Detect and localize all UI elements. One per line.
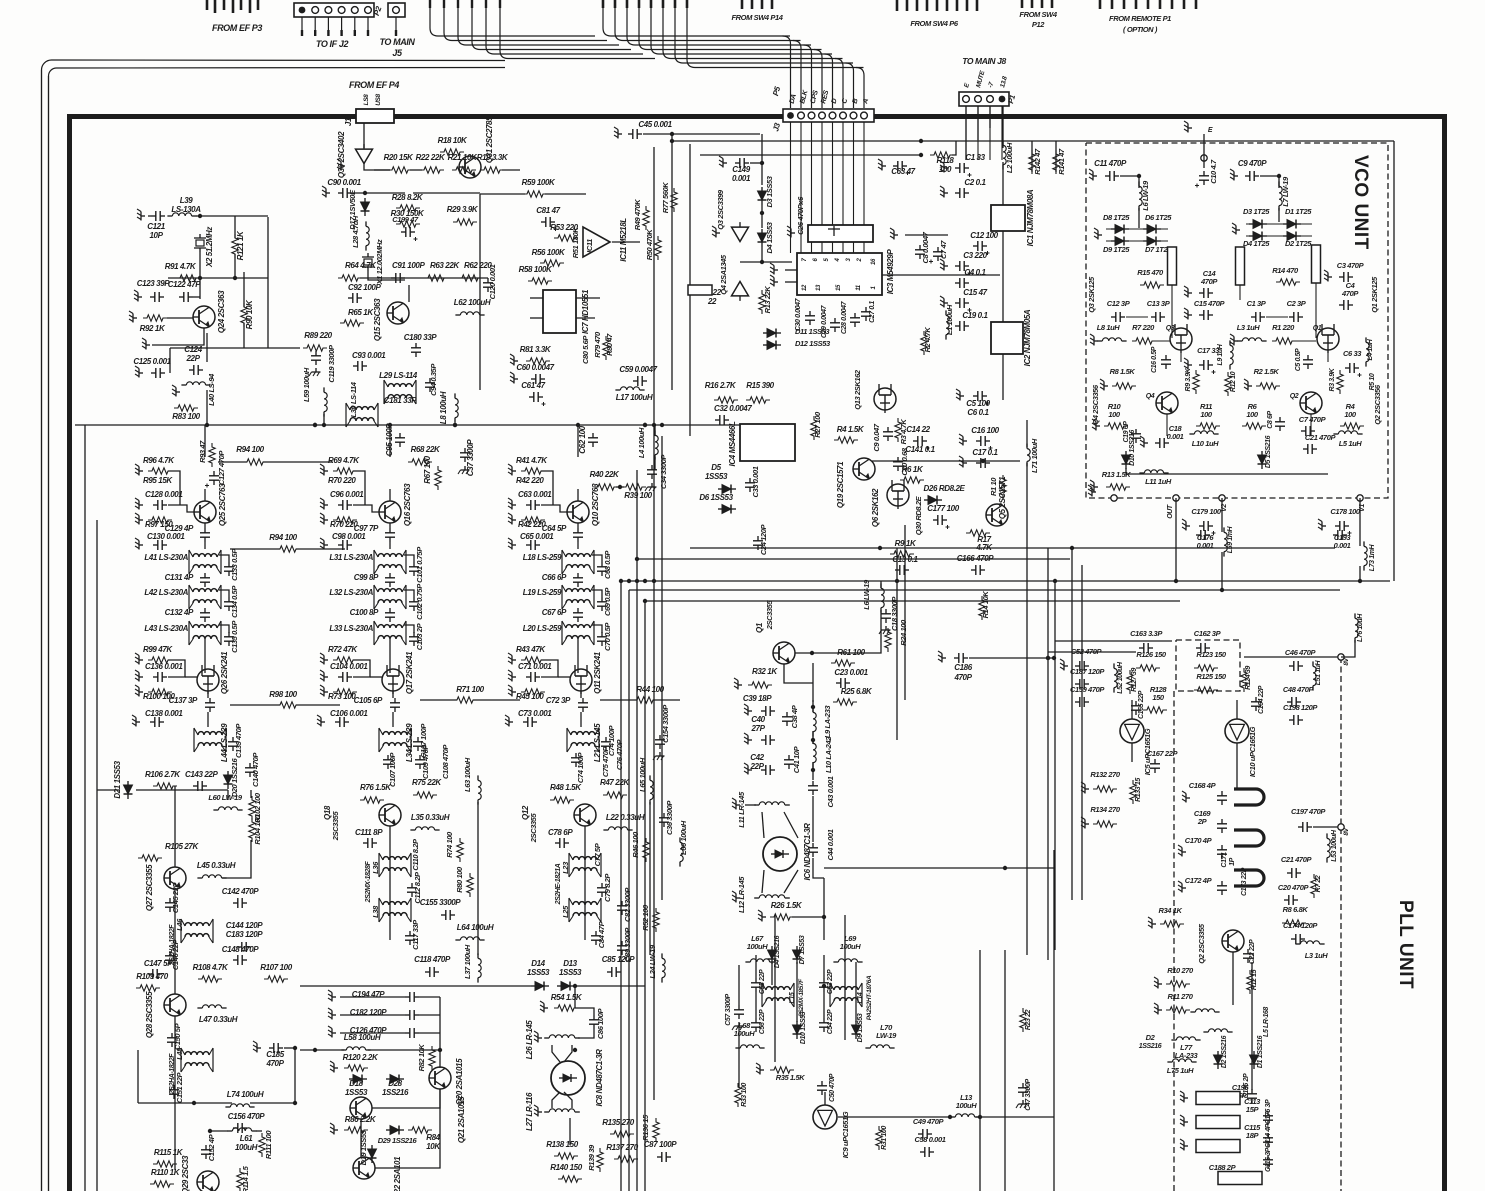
svg-text:C134 0.5P: C134 0.5P (230, 585, 239, 618)
inductor L20 (562, 621, 594, 645)
svg-text:R42 220: R42 220 (516, 476, 544, 485)
capacitor C38 (782, 712, 792, 726)
wire (612, 241, 640, 243)
svg-text:R70 220: R70 220 (328, 476, 356, 485)
diode D10v (1122, 451, 1131, 469)
label pin DA (789, 93, 798, 104)
connector FROM REMOTE P1 stubs (1100, 0, 1196, 9)
capacitor C133 (224, 562, 234, 576)
wire (1120, 175, 1139, 177)
label FROM REMOTE P1 (1109, 14, 1171, 34)
svg-text:R133 15: R133 15 (1135, 778, 1142, 802)
inductor L26 (544, 1035, 580, 1038)
label R31 (881, 1126, 888, 1150)
capacitor C164 (1251, 697, 1261, 711)
label R45 100 (516, 692, 544, 701)
capacitor C166 (971, 565, 985, 575)
FET Q11 (570, 665, 592, 694)
label C40 value (750, 724, 765, 733)
capacitor C145 (165, 898, 175, 912)
label C176 (1197, 533, 1215, 542)
label C78 (548, 828, 573, 837)
svg-text:18P: 18P (1246, 1131, 1260, 1140)
label R15v (1137, 268, 1164, 277)
wire bus c5 (896, 548, 898, 740)
label L18 LS-259 (523, 553, 562, 562)
connector TO MAIN J5 (388, 3, 405, 36)
svg-text:C110 8.2P: C110 8.2P (411, 838, 420, 871)
svg-text:2SC3355: 2SC3355 (765, 600, 774, 631)
svg-text:R16 2.7K: R16 2.7K (705, 381, 737, 390)
pin 11 (856, 284, 862, 290)
label R20 (384, 153, 414, 162)
wire (645, 600, 1180, 602)
svg-text:R10 270: R10 270 (1167, 966, 1194, 975)
wire bus (628, 590, 630, 1191)
label L48 type (169, 1053, 176, 1095)
label L17 (616, 393, 653, 402)
label D7p (799, 935, 806, 964)
wire (370, 676, 382, 678)
capacitor C67 (573, 608, 583, 622)
capacitor C14 (913, 436, 930, 450)
ground (135, 464, 143, 476)
wire bus (636, 470, 638, 1191)
ground (172, 385, 180, 397)
pin 3 (846, 257, 852, 261)
svg-text:L28 4.7uH: L28 4.7uH (351, 215, 360, 248)
label C3c (963, 251, 987, 260)
label C4c (964, 268, 986, 277)
svg-text:R5 10: R5 10 (1369, 373, 1376, 390)
ground (1324, 270, 1332, 282)
capacitor C172 (1217, 881, 1227, 895)
label L14 type (866, 975, 873, 1020)
capacitor C14v (1199, 288, 1213, 298)
resistor R81 (526, 358, 550, 364)
wire (577, 639, 579, 673)
wire (976, 1116, 1054, 1118)
label C113 value (1246, 1105, 1260, 1114)
op-amp IC11 (583, 227, 610, 257)
ground (1081, 817, 1089, 829)
capacitor C72 (578, 698, 588, 712)
svg-text:R61 100: R61 100 (837, 648, 865, 657)
svg-text:L61: L61 (240, 1134, 254, 1143)
label C84 (597, 920, 606, 948)
wire (204, 542, 206, 549)
svg-text:C156 470P: C156 470P (228, 1112, 265, 1121)
label C18b (890, 596, 899, 631)
label L3p (1305, 951, 1329, 960)
capacitor C78 (555, 838, 569, 848)
svg-text:C15 47: C15 47 (963, 288, 987, 297)
label R5v (1369, 373, 1376, 390)
label L24 (648, 944, 657, 978)
resistor R12p (1247, 970, 1253, 994)
resistor R94b (276, 546, 300, 552)
wire (828, 228, 840, 230)
svg-text:2S2HE-1821A: 2S2HE-1821A (555, 863, 562, 905)
svg-text:L40 LS-94: L40 LS-94 (207, 373, 216, 406)
capacitor C59 (633, 376, 647, 386)
svg-text:R58 100K: R58 100K (519, 265, 553, 274)
label L8v (1097, 323, 1121, 332)
label pin 13.8 (999, 75, 1009, 88)
label C131 4P (165, 573, 194, 582)
svg-text:C198 120P: C198 120P (1283, 703, 1318, 712)
ground (505, 715, 513, 727)
label C104 0.001 (330, 662, 368, 671)
svg-text:C128 0.001: C128 0.001 (145, 490, 183, 499)
svg-text:L25: L25 (561, 905, 570, 918)
capacitor C15c (955, 298, 972, 312)
label C167 (1147, 749, 1179, 758)
resistor R2v (1256, 383, 1280, 389)
svg-text:R47 22K: R47 22K (600, 778, 630, 787)
inductor L46 (181, 919, 213, 943)
inductor L17 (615, 387, 644, 390)
wire (1175, 498, 1177, 581)
resistor R139 (597, 1148, 603, 1172)
label IC8 (595, 1049, 604, 1107)
label L13 (960, 1093, 973, 1102)
label L77 (1180, 1043, 1193, 1052)
resistor R72 (333, 657, 357, 663)
label L76 (1357, 613, 1364, 642)
wire bottom rail VCO (1126, 468, 1328, 474)
label C21v (1305, 433, 1337, 442)
label P2 (372, 4, 384, 16)
wire (480, 193, 525, 195)
wire (771, 962, 773, 985)
diode D5 (718, 485, 736, 494)
label R96 4.7K (143, 456, 175, 465)
label 10P (149, 231, 163, 240)
label C21p (1281, 855, 1313, 864)
wire (592, 625, 602, 633)
label R12p (1251, 969, 1258, 990)
label C32 (714, 404, 752, 413)
ground (614, 127, 622, 139)
label L66 (679, 820, 688, 855)
capacitor C116 (1263, 1155, 1273, 1169)
inductor L5v (1333, 431, 1362, 434)
wire (577, 542, 579, 549)
capacitor C27 (861, 307, 871, 321)
capacitor C40 (761, 735, 775, 745)
label R40 (590, 470, 620, 479)
pin 2 (857, 257, 863, 262)
resistor R99 (148, 657, 172, 663)
label C187 (1070, 667, 1105, 676)
svg-text:C44 0.001: C44 0.001 (826, 829, 835, 860)
diode D7p (793, 946, 802, 964)
label pin CPS (810, 89, 820, 104)
svg-text:100uH: 100uH (840, 942, 861, 951)
wire (1048, 651, 1136, 653)
resistor R1 (1000, 475, 1006, 499)
label R7v (1132, 323, 1155, 332)
label C110 (411, 838, 420, 871)
node 8V (1338, 654, 1344, 660)
svg-text:C72 3P: C72 3P (546, 696, 571, 705)
capacitor C7v (1301, 426, 1315, 436)
ground (1232, 223, 1240, 235)
label R132 (1090, 770, 1121, 779)
wire (196, 215, 268, 217)
label FROM EF P3 (212, 23, 262, 33)
transistor Q24 (193, 306, 215, 328)
label R79 (593, 331, 602, 358)
capacitor C97 (385, 528, 395, 542)
capacitor C56 (751, 1018, 761, 1032)
label R35 (776, 1073, 805, 1082)
label C99 8P (354, 573, 379, 582)
capacitor C52 (1075, 661, 1089, 671)
resistor R134 (1093, 821, 1117, 827)
resistor R120 (344, 1065, 368, 1071)
label R28 (392, 193, 424, 202)
label C197 (1291, 807, 1326, 816)
svg-text:C185: C185 (266, 1050, 284, 1059)
svg-text:D3 1SS53: D3 1SS53 (765, 175, 774, 207)
capacitor C44 (808, 843, 818, 857)
label C175 (1265, 1099, 1272, 1124)
ground (137, 209, 145, 221)
label IC4 (728, 421, 737, 466)
resistor box right (1312, 245, 1321, 283)
label IC5 (1143, 728, 1152, 775)
svg-text:R25 6.8K: R25 6.8K (841, 687, 873, 696)
svg-text:L11 LR-145: L11 LR-145 (737, 791, 746, 828)
label L23 (561, 861, 570, 874)
label C23 (834, 668, 868, 677)
inductor L58 (341, 1047, 370, 1050)
label C171 (1221, 852, 1228, 868)
label LS-130A (171, 205, 201, 214)
svg-text:C65 0.001: C65 0.001 (520, 532, 554, 541)
label C20p (1278, 883, 1310, 892)
svg-text:D12 1SS53: D12 1SS53 (795, 339, 831, 348)
svg-text:C175 3P: C175 3P (1265, 1099, 1272, 1124)
svg-text:2SC3355: 2SC3355 (529, 813, 538, 844)
capacitor C125 (151, 368, 165, 378)
label C107 (388, 752, 397, 787)
wire (360, 1119, 362, 1157)
wire (207, 712, 209, 727)
crystal X2 (194, 234, 206, 252)
wire (502, 169, 520, 171)
resistor R98 (276, 702, 300, 708)
wire (296, 704, 340, 706)
label L5v (1339, 439, 1363, 448)
label C26 (796, 196, 805, 235)
label C50 (829, 1073, 836, 1102)
resistor R44 (633, 697, 657, 703)
wire bus c6 (904, 525, 906, 700)
wire (1341, 640, 1355, 657)
svg-text:FROM EF P3: FROM EF P3 (212, 23, 262, 33)
label R128 (1150, 685, 1168, 694)
transistor Q22 (353, 1157, 375, 1179)
ground (1244, 379, 1252, 391)
wire outer harness line 2 (49, 68, 506, 1192)
wire (296, 548, 345, 550)
ground (320, 498, 328, 510)
inductor L64 (455, 937, 484, 940)
label R30 (391, 209, 425, 218)
label L40 (207, 373, 216, 406)
wire (97, 789, 120, 791)
capacitor C105 (390, 698, 400, 712)
label C147 (144, 959, 173, 968)
ground (328, 990, 336, 1002)
wire (1278, 208, 1280, 222)
label C49 (913, 1117, 945, 1126)
svg-text:1P: 1P (1229, 857, 1236, 865)
label IC10 (1248, 726, 1257, 777)
svg-text:470P: 470P (1200, 277, 1218, 286)
label C11 (1094, 159, 1127, 168)
svg-text:Q31 2SC2785: Q31 2SC2785 (485, 116, 494, 163)
capacitor C100 (385, 608, 395, 622)
transistor Q1 PLL (773, 642, 795, 664)
capacitor C148 (233, 955, 247, 965)
capacitor C90 (338, 188, 352, 198)
svg-text:R94 100: R94 100 (236, 445, 264, 454)
label L62 (454, 298, 491, 307)
ground (879, 626, 891, 634)
transistor Q28 (164, 994, 186, 1016)
diode D3 (758, 187, 767, 205)
wire (740, 261, 792, 263)
wire (364, 163, 390, 170)
wire bus b1 (979, 950, 981, 1191)
svg-text:0.001: 0.001 (732, 174, 751, 183)
label C170 (1185, 836, 1213, 845)
inductor L4 (655, 430, 658, 459)
wire (824, 867, 1055, 869)
inductor L35 (410, 827, 439, 830)
label R47 (600, 778, 630, 787)
svg-text:L45 0.33uH: L45 0.33uH (197, 861, 236, 870)
label C8 (921, 231, 930, 263)
svg-text:0.001: 0.001 (1334, 541, 1351, 550)
svg-text:C91 100P: C91 100P (392, 261, 425, 270)
svg-text:C20 470P: C20 470P (1278, 883, 1310, 892)
wire (1106, 228, 1168, 230)
resistor R132 (1093, 786, 1117, 792)
capacitor C60 (531, 374, 545, 384)
svg-text:C136 0.001: C136 0.001 (145, 662, 183, 671)
svg-text:R13 1.5K: R13 1.5K (1102, 470, 1131, 479)
resistor R21 (452, 167, 476, 173)
wire (577, 425, 579, 457)
wire (1002, 354, 1004, 400)
label D4 (765, 221, 774, 253)
label C123 (137, 279, 170, 288)
label C193 (1334, 533, 1352, 542)
label C162 (1194, 629, 1222, 638)
label L15 (789, 992, 796, 1003)
resistor R34 (1160, 921, 1184, 927)
stripline resonator 3 (1234, 870, 1264, 886)
label R14v (1272, 266, 1299, 275)
diode D4 (758, 229, 767, 247)
svg-text:R35 1.5K: R35 1.5K (776, 1073, 805, 1082)
label R64 (345, 261, 377, 270)
label C87 (644, 1140, 677, 1149)
label R109 (136, 972, 168, 981)
label pin A (862, 98, 870, 106)
capacitor C85 (607, 967, 621, 977)
svg-text:2P: 2P (1197, 817, 1208, 826)
inductor L59b (1224, 527, 1227, 556)
label P5 (771, 85, 782, 97)
ground (1090, 334, 1098, 346)
label USB (375, 93, 382, 105)
label R82 (417, 1044, 426, 1072)
label C112 (413, 871, 422, 904)
label C98 0.001 (332, 532, 366, 541)
svg-text:D9 1T25: D9 1T25 (1103, 245, 1130, 254)
label C188 (1209, 1163, 1237, 1172)
resistor R14v (1276, 279, 1300, 285)
svg-text:C159 470P: C159 470P (1070, 685, 1105, 694)
svg-text:R14 10K: R14 10K (981, 591, 990, 619)
pin 4 (835, 257, 841, 262)
label C181 (384, 396, 417, 405)
resistor R18 (440, 149, 464, 155)
label C2 (964, 178, 986, 187)
svg-text:R74 100: R74 100 (445, 831, 454, 858)
label R17 (977, 535, 991, 544)
resistor R80 (467, 873, 473, 897)
label C149 (732, 165, 750, 174)
svg-text:Q6 2SK162: Q6 2SK162 (871, 488, 880, 527)
svg-text:C57 3300P: C57 3300P (725, 994, 732, 1026)
capacitor C137 (205, 698, 215, 712)
label C124 (184, 345, 202, 354)
ground (322, 186, 330, 198)
svg-text:C101 0.75P: C101 0.75P (415, 546, 424, 583)
capacitor C21p (1287, 868, 1301, 878)
svg-text:C151 22P: C151 22P (175, 1072, 184, 1104)
capacitor C167 (1150, 759, 1160, 773)
pin 6 (813, 257, 819, 261)
ground (719, 156, 727, 168)
label D17 (348, 189, 357, 230)
resistor R47 (603, 792, 627, 798)
ground (744, 733, 752, 745)
resistor R128 (1143, 707, 1167, 713)
wire (784, 812, 798, 838)
capacitor C179 (1199, 521, 1216, 535)
label R118 value (939, 165, 952, 174)
svg-text:R49 470K: R49 470K (633, 199, 642, 231)
svg-text:C8 6P: C8 6P (1267, 411, 1274, 429)
label C148 (222, 945, 259, 954)
capacitor C3v (1339, 272, 1353, 282)
ground (134, 290, 142, 302)
label C63 0.001 (518, 490, 552, 499)
svg-text:R59 100K: R59 100K (522, 178, 556, 187)
capacitor C168 (1217, 791, 1227, 805)
label TO IF J2 (316, 39, 349, 49)
label C145 (171, 882, 180, 914)
ground (770, 263, 778, 275)
